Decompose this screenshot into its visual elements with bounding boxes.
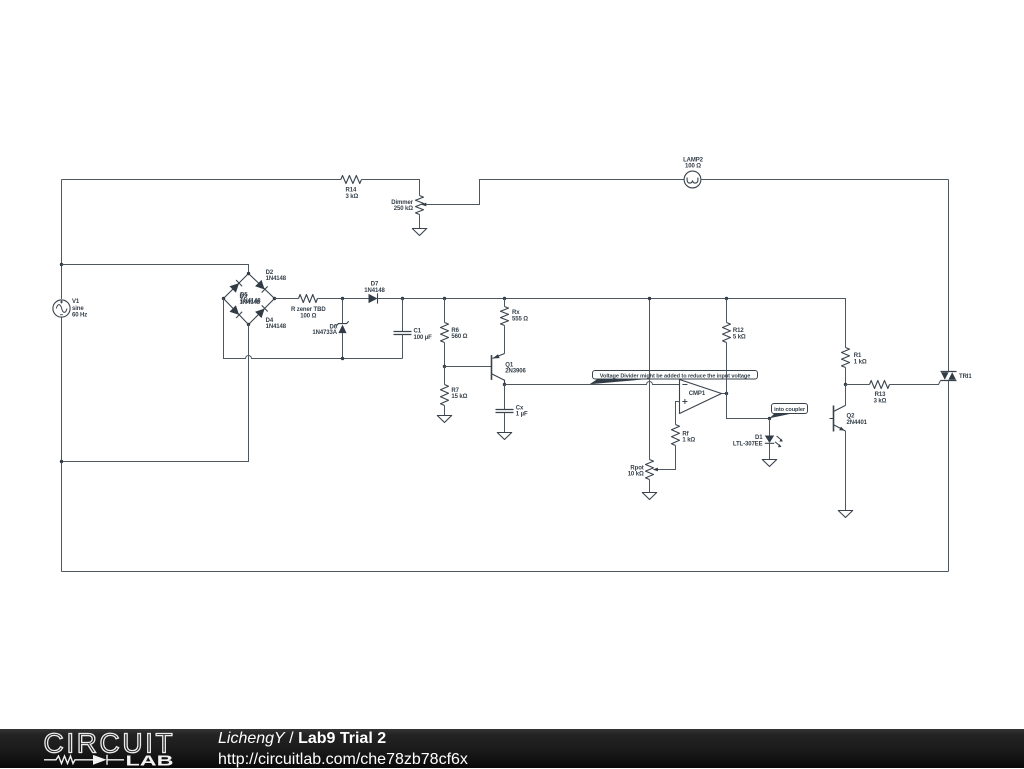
resistor R7 label <box>451 388 467 400</box>
diode D5 (bridge bottom-left) <box>230 305 243 318</box>
svg-text:Cx: Cx <box>516 405 524 411</box>
svg-text:560 Ω: 560 Ω <box>451 334 467 340</box>
potentiometer Dimmer label <box>391 200 414 212</box>
wire base node to Q1 base <box>445 366 492 368</box>
wire CMP1 output down to LED branch <box>727 394 770 419</box>
op-amp CMP1 label <box>689 391 706 397</box>
resistor R12 label <box>733 328 746 340</box>
bridge rectifier diamond <box>224 274 275 325</box>
svg-text:LTL-307EE: LTL-307EE <box>733 441 763 447</box>
footer url <box>218 751 468 769</box>
zener D6 label <box>312 324 337 336</box>
svg-text:15 kΩ: 15 kΩ <box>451 394 467 400</box>
svg-text:100 µF: 100 µF <box>414 335 433 341</box>
svg-text:Q1: Q1 <box>505 362 514 368</box>
diode D3 label (overlapping) <box>240 294 261 306</box>
resistor R13 label <box>874 392 887 404</box>
CircuitLab logo <box>0 729 210 768</box>
wire CMP1 output <box>722 393 727 395</box>
ground below Rpot <box>642 493 656 500</box>
resistor R zener TBD <box>299 295 318 303</box>
svg-text:250 kΩ: 250 kΩ <box>394 206 414 212</box>
node bridge right vertex <box>273 297 276 300</box>
wire node to R13 <box>846 384 870 386</box>
svg-text:C1: C1 <box>414 329 422 335</box>
svg-text:1N4148: 1N4148 <box>266 324 287 330</box>
node junction left rail to bridge <box>60 263 63 266</box>
logo resistor-diode doodle <box>44 755 124 765</box>
lamp LAMP2 <box>684 171 701 188</box>
node bridge top vertex <box>247 272 250 275</box>
note annotation: into coupler note <box>770 404 808 419</box>
triac TRI1 label <box>959 374 972 380</box>
svg-text:1N4733A: 1N4733A <box>312 330 337 336</box>
LED D1 (LTL-307EE) <box>765 436 783 448</box>
resistor R1 label <box>854 353 867 365</box>
potentiometer Rpot <box>646 460 658 480</box>
wire bus to R6 <box>444 299 446 323</box>
node junction D6 on bus <box>341 297 344 300</box>
capacitor Cx <box>496 385 514 433</box>
svg-text:1N4148: 1N4148 <box>240 298 261 304</box>
resistor R1 <box>842 348 850 368</box>
op-amp CMP1 <box>680 380 722 414</box>
svg-text:LAB: LAB <box>126 754 174 769</box>
capacitor C1 <box>394 299 412 359</box>
svg-text:1 µF: 1 µF <box>516 412 528 418</box>
wire Dimmer wiper to lamp <box>426 180 684 205</box>
node junction Rx on bus <box>503 297 506 300</box>
node bridge left vertex <box>222 297 225 300</box>
wire bus down to Rpot (crosses note box) <box>649 299 651 460</box>
transistor Q1 label <box>505 362 526 374</box>
node junction R12 on bus <box>725 297 728 300</box>
diode D4 label <box>266 318 287 330</box>
node junction Q1 collector / Cx <box>503 383 506 386</box>
svg-text:1 kΩ: 1 kΩ <box>682 438 695 444</box>
diode D7 <box>369 293 378 303</box>
ground below R7 <box>437 416 451 423</box>
LED D1 label <box>733 435 763 447</box>
svg-text:D1: D1 <box>755 435 763 441</box>
svg-text:1 kΩ: 1 kΩ <box>854 359 867 365</box>
footer title <box>218 730 386 748</box>
wire main bus D7 to corner and down to R1 <box>378 299 846 348</box>
svg-text:5 kΩ: 5 kΩ <box>733 334 746 340</box>
svg-text:into coupler: into coupler <box>774 407 806 413</box>
resistor Rf <box>672 425 680 446</box>
wire left rail to bridge top <box>62 265 249 274</box>
wire bus to Rx <box>504 299 506 307</box>
svg-text:R zener TBD: R zener TBD <box>291 307 326 313</box>
svg-text:CMP1: CMP1 <box>689 391 706 397</box>
svg-text:R1: R1 <box>854 353 862 359</box>
svg-text:D5: D5 <box>240 292 248 298</box>
wire R13 to triac gate <box>890 381 941 385</box>
diode D2 (bridge top-right) <box>255 280 268 293</box>
svg-text:D7: D7 <box>371 282 379 288</box>
node junction R1/R13/Q2 collector <box>844 383 847 386</box>
wire Dimmer bottom to ground <box>419 215 421 229</box>
wire LED to ground <box>769 443 771 459</box>
resistor R6 label <box>451 328 467 340</box>
wire bus to zener D6 <box>342 299 344 324</box>
footer bar <box>0 729 1024 768</box>
resistor R7 <box>441 367 449 416</box>
svg-text:2N4401: 2N4401 <box>847 420 868 426</box>
wire R12 to CMP1 output node <box>726 343 728 394</box>
svg-text:Rx: Rx <box>512 310 520 316</box>
resistor Rx <box>501 307 509 326</box>
node junction CMP1 output <box>725 392 728 395</box>
diode D4 (bridge bottom-right) <box>255 305 268 318</box>
svg-text:1N4148: 1N4148 <box>266 276 287 282</box>
capacitor C1 label <box>414 329 433 341</box>
wire Q2 emitter to ground <box>845 431 847 511</box>
svg-text:R14: R14 <box>346 188 357 194</box>
resistor R12 <box>723 323 731 343</box>
svg-text:D4: D4 <box>266 318 274 324</box>
wire right rail upper (to triac) <box>948 180 950 372</box>
svg-text:Rf: Rf <box>682 431 689 437</box>
node bridge bottom vertex <box>247 323 250 326</box>
wire R zener to D7 <box>318 298 369 300</box>
svg-text:Dimmer: Dimmer <box>391 200 414 206</box>
node junction R6 on bus <box>443 297 446 300</box>
resistor R zener TBD label <box>291 307 326 319</box>
svg-text:R6: R6 <box>451 328 459 334</box>
svg-text:TRI1: TRI1 <box>959 374 972 380</box>
node junction LED anode <box>768 417 771 420</box>
wire R14 to Dimmer top <box>362 180 420 196</box>
wire bus to R12 <box>726 299 728 323</box>
svg-text:LAMP2: LAMP2 <box>683 157 704 163</box>
wire R6 to base node <box>444 343 446 367</box>
wire R1 to gate node <box>845 368 847 385</box>
svg-text:100 Ω: 100 Ω <box>300 313 316 319</box>
triac TRI1 <box>941 372 957 381</box>
diode D3 (bridge top-left) <box>230 280 243 293</box>
svg-text:60 Hz: 60 Hz <box>72 312 87 318</box>
svg-text:3 kΩ: 3 kΩ <box>346 194 359 200</box>
zener diode D6 <box>336 321 348 333</box>
svg-text:D2: D2 <box>266 270 274 276</box>
node junction D6 anode on bottom wire <box>341 357 344 360</box>
wire bridge right vertex to R zener <box>275 298 299 300</box>
ground below LED D1 <box>762 460 776 467</box>
wire Rpot to ground <box>649 480 651 493</box>
svg-text:1N4148: 1N4148 <box>364 288 385 294</box>
svg-text:10 kΩ: 10 kΩ <box>628 472 644 478</box>
lamp LAMP2 label <box>683 157 704 169</box>
voltage source V1 <box>53 300 70 317</box>
transistor Q2 (NPN 2N4401) <box>830 405 846 431</box>
transistor Q2 label <box>847 414 868 426</box>
svg-text:Q2: Q2 <box>847 414 856 420</box>
wire left rail bottom (V1 to bottom rail) <box>61 317 63 571</box>
svg-text:100 Ω: 100 Ω <box>685 164 701 170</box>
svg-text:R12: R12 <box>733 328 744 334</box>
node junction R6/R7/Q1 base <box>443 365 446 368</box>
wire left rail top (top wire to V1) <box>61 180 63 300</box>
diode D5 label (overlapping) <box>240 292 261 304</box>
wire zener D6 to bottom wire <box>342 333 344 358</box>
svg-text:R7: R7 <box>451 388 459 394</box>
wire top rail to R14 <box>62 179 341 181</box>
note annotation: voltage divider note <box>590 371 758 385</box>
wire Rx to Q1 emitter <box>504 326 506 354</box>
ground below Cx <box>497 433 511 440</box>
resistor R13 <box>870 381 890 389</box>
logo diode <box>93 755 107 765</box>
svg-text:2N3906: 2N3906 <box>505 369 526 375</box>
svg-text:Rpot: Rpot <box>630 465 643 471</box>
wire bridge left vertex to C1 bottom (hop over crossing) <box>224 299 403 359</box>
diode D7 label <box>364 282 385 294</box>
potentiometer Dimmer <box>416 196 427 215</box>
svg-text:V1: V1 <box>72 299 80 305</box>
svg-text:555 Ω: 555 Ω <box>512 316 528 322</box>
wire bottom rail <box>62 571 949 573</box>
resistor R14 <box>341 176 362 184</box>
svg-text:Voltage Divider might be added: Voltage Divider might be added to reduce… <box>600 373 750 379</box>
wire gate node down to Q2 collector <box>845 385 847 406</box>
ground below Q2 <box>838 511 852 518</box>
resistor Rf label <box>682 431 695 443</box>
wire bridge bottom vertex down and to left rail <box>62 325 249 462</box>
ground below Dimmer <box>412 229 426 236</box>
svg-text:3 kΩ: 3 kΩ <box>874 398 887 404</box>
wire CMP1 plus input to Rf <box>676 402 680 425</box>
resistor Rx label <box>512 310 528 322</box>
svg-text:sine: sine <box>72 306 84 312</box>
svg-text:R13: R13 <box>875 392 886 398</box>
wire lamp to right rail <box>701 179 949 181</box>
resistor R14 label <box>346 188 359 200</box>
wire Q1 collector to CMP1 minus (hop over crossing) <box>505 382 680 385</box>
node junction on left rail (bridge return) <box>60 460 63 463</box>
diode D2 label <box>266 270 287 282</box>
capacitor Cx label <box>516 405 528 417</box>
resistor R6 <box>441 323 449 343</box>
wire right rail lower (triac to bottom rail) <box>948 381 950 572</box>
node junction Rpot feed on bus <box>648 297 651 300</box>
wire Rf to Rpot wiper <box>657 446 676 470</box>
wire to LED D1 <box>769 419 771 436</box>
potentiometer Rpot label <box>628 465 644 477</box>
node junction C1 on bus <box>401 297 404 300</box>
transistor Q1 (PNP 2N3906) <box>492 354 505 385</box>
voltage source V1 label <box>72 299 87 318</box>
